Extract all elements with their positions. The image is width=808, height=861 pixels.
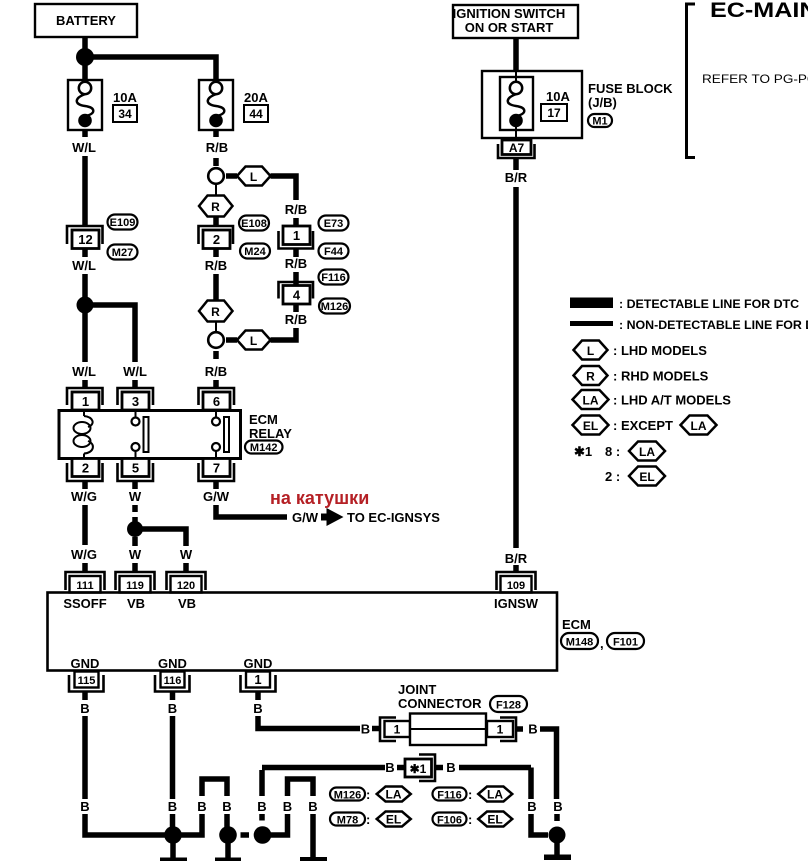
wire connector4 down to L2	[293, 304, 299, 312]
wire to connector 1	[293, 218, 299, 227]
svg-text:B: B	[80, 799, 89, 814]
wire W down	[132, 537, 138, 546]
svg-text::: :	[468, 812, 472, 827]
svg-text:GND: GND	[71, 656, 100, 671]
connector E109/M27 box 12	[67, 215, 138, 260]
fuse 10A 34	[68, 80, 137, 130]
node W junction	[127, 521, 143, 537]
svg-text:B: B	[80, 701, 89, 716]
ground 3	[300, 857, 327, 861]
node option circle 2	[208, 332, 224, 348]
wire battery down	[82, 37, 88, 80]
svg-text:1: 1	[497, 723, 504, 737]
svg-text:EL: EL	[386, 813, 401, 827]
svg-text:EC-MAIN: EC-MAIN	[710, 0, 808, 21]
svg-text:R/B: R/B	[285, 256, 307, 271]
relay contact 1	[132, 411, 149, 459]
node ground junction 2	[219, 826, 237, 844]
svg-text:F128: F128	[496, 700, 521, 712]
legend M78 EL	[330, 812, 411, 828]
svg-text:E73: E73	[324, 218, 344, 230]
wire bridge 1	[179, 814, 202, 835]
wire to pin111	[82, 563, 88, 573]
svg-text:R/B: R/B	[205, 258, 227, 273]
svg-text:W/L: W/L	[123, 364, 147, 379]
legend M126 LA	[330, 787, 411, 803]
RHD option hexagon R	[199, 301, 233, 322]
svg-text:4: 4	[293, 288, 301, 303]
svg-text:W: W	[180, 547, 193, 562]
svg-text:B: B	[553, 799, 562, 814]
connector *1	[405, 755, 435, 782]
svg-text:M126: M126	[321, 301, 349, 313]
svg-text:115: 115	[78, 675, 96, 687]
svg-text:,: ,	[600, 636, 604, 651]
svg-text:12: 12	[78, 232, 92, 247]
svg-text:G/W: G/W	[292, 510, 319, 525]
legend F116 LA	[433, 787, 513, 803]
svg-text:7: 7	[213, 461, 220, 476]
svg-text:A7: A7	[509, 141, 525, 155]
ECM box	[48, 593, 558, 671]
svg-text::: :	[366, 812, 370, 827]
wire pin7 to EC-IGNSYS	[216, 505, 287, 517]
svg-text:CONNECTOR: CONNECTOR	[398, 696, 482, 711]
wire W branch to pin120	[135, 529, 186, 546]
svg-text:120: 120	[177, 580, 195, 592]
svg-text:REFER TO PG-POWER.: REFER TO PG-POWER.	[702, 73, 808, 86]
wire pin2 down	[82, 505, 88, 545]
ECM pin 119	[116, 572, 155, 593]
wire circle to R	[215, 184, 217, 196]
svg-text:F116: F116	[321, 272, 345, 284]
svg-text:B: B	[446, 760, 455, 775]
svg-text:B: B	[257, 799, 266, 814]
svg-text:F44: F44	[324, 246, 344, 258]
svg-text:: EXCEPT: : EXCEPT	[613, 418, 673, 433]
svg-text:B: B	[168, 799, 177, 814]
svg-text:20A: 20A	[244, 90, 268, 105]
svg-text:ECM: ECM	[249, 412, 278, 427]
svg-text:W/L: W/L	[72, 140, 96, 155]
svg-text:E108: E108	[241, 218, 267, 230]
svg-text:: NON-DETECTABLE LINE FOR DTC: : NON-DETECTABLE LINE FOR DTC	[619, 318, 808, 332]
legend F106 EL	[433, 812, 513, 828]
svg-text:VB: VB	[127, 596, 145, 611]
relay pin 1	[67, 388, 103, 410]
wire ignition down	[513, 38, 519, 72]
wire circle2 down dashed	[213, 351, 219, 359]
node ground junction 1	[164, 826, 182, 844]
svg-text:B: B	[308, 799, 317, 814]
svg-text:M142: M142	[250, 442, 278, 454]
wire pin5 down dashed	[132, 505, 138, 512]
svg-text:M24: M24	[244, 246, 266, 258]
wire stub to L	[226, 173, 237, 179]
svg-text:VB: VB	[178, 596, 196, 611]
svg-text:(J/B): (J/B)	[588, 95, 617, 110]
svg-text:: LHD A/T MODELS: : LHD A/T MODELS	[613, 393, 731, 408]
svg-text:10A: 10A	[113, 90, 137, 105]
wire box2 down	[213, 249, 219, 258]
svg-text:LA: LA	[691, 419, 707, 433]
wire pin116 down	[170, 716, 176, 799]
svg-text:GND: GND	[244, 656, 273, 671]
wire R to circle	[215, 322, 217, 334]
wire A7 down	[513, 158, 519, 170]
svg-text:R: R	[211, 200, 220, 214]
fuse 20A 44	[199, 80, 268, 130]
wire stubs to pins 119 120	[132, 563, 138, 573]
svg-text:116: 116	[164, 675, 182, 687]
legend thin line	[570, 321, 613, 326]
wire to relay pin3	[132, 380, 138, 389]
relay pin 7	[199, 459, 235, 482]
legend hexagon R	[574, 366, 608, 385]
svg-text:B: B	[283, 799, 292, 814]
svg-text:W: W	[129, 547, 142, 562]
ECM pin 115	[69, 672, 104, 692]
title EC-MAIN	[710, 0, 808, 21]
svg-text:R: R	[586, 370, 595, 384]
wire bridge 2	[269, 814, 288, 835]
svg-text:2: 2	[82, 461, 89, 476]
svg-text:R/B: R/B	[205, 364, 227, 379]
svg-text:L: L	[250, 170, 257, 184]
ground 1	[170, 843, 176, 858]
svg-text:✱1: ✱1	[410, 762, 427, 776]
wire L to right branch	[271, 176, 297, 200]
svg-text:1: 1	[394, 723, 401, 737]
relay coil	[74, 411, 93, 459]
svg-text:LA: LA	[639, 445, 655, 459]
svg-text:W/L: W/L	[72, 364, 96, 379]
svg-text:на катушки: на катушки	[270, 488, 369, 508]
svg-text:6: 6	[213, 394, 220, 409]
svg-text:LA: LA	[583, 394, 599, 408]
relay pin 5	[118, 459, 154, 482]
pin stubs	[82, 692, 88, 701]
svg-text:EL: EL	[639, 470, 654, 484]
svg-text:3: 3	[132, 394, 139, 409]
ECM pin 111	[66, 572, 105, 593]
wire stub to L2	[226, 337, 237, 343]
fuse block labels	[588, 81, 673, 128]
arrow to EC-IGNSYS	[321, 508, 344, 526]
ground 4	[554, 843, 560, 855]
svg-text:F106: F106	[437, 815, 462, 827]
relay pin 2	[67, 459, 103, 482]
wire to relay pin1	[82, 380, 88, 389]
svg-text:B: B	[222, 799, 231, 814]
connector E73/F44 box 1	[279, 216, 349, 259]
svg-text:W/G: W/G	[71, 489, 97, 504]
svg-text:B: B	[528, 722, 537, 737]
svg-text:R/B: R/B	[285, 312, 307, 327]
wire box12 down	[82, 249, 88, 258]
node W/L junction	[77, 297, 94, 314]
svg-text::: :	[366, 787, 370, 802]
wire pin115 down	[82, 716, 88, 799]
battery box	[35, 4, 137, 37]
wire fuse20A down dashed	[213, 130, 219, 137]
svg-text:TO EC-IGNSYS: TO EC-IGNSYS	[347, 510, 440, 525]
svg-text:17: 17	[547, 106, 561, 120]
joint connector right wire	[516, 726, 523, 732]
refer note	[702, 73, 808, 86]
legend hexagon L	[574, 341, 608, 360]
wire pin115 corner to junction	[85, 814, 167, 835]
legend hexagon EL	[573, 416, 609, 435]
relay contact 2	[212, 411, 229, 459]
svg-text:ON OR START: ON OR START	[465, 20, 554, 35]
pin stubs below relay	[82, 481, 88, 489]
wire branch to relay pin3	[85, 305, 135, 362]
LHD option hexagon L	[237, 167, 271, 186]
svg-text:W: W	[129, 489, 142, 504]
svg-text:1: 1	[254, 672, 261, 687]
svg-text:10A: 10A	[546, 89, 570, 104]
svg-text:ECM: ECM	[562, 617, 591, 632]
svg-text:1: 1	[293, 228, 300, 243]
legend hexagon LA	[573, 390, 609, 409]
svg-text:B: B	[527, 799, 536, 814]
wire dash junction2 junction3	[241, 832, 250, 838]
ECM pin 116	[155, 672, 190, 692]
svg-text:IGNSW: IGNSW	[494, 596, 539, 611]
svg-text:1: 1	[82, 394, 89, 409]
joint connector F128	[380, 714, 516, 746]
svg-text:JOINT: JOINT	[398, 682, 436, 697]
svg-text:LA: LA	[487, 788, 503, 802]
svg-text:R: R	[211, 305, 220, 319]
wire R to connector 2	[213, 217, 219, 228]
wire to pin109	[513, 565, 519, 573]
bracket	[687, 4, 696, 158]
svg-text:109: 109	[507, 580, 525, 592]
svg-text:RELAY: RELAY	[249, 426, 292, 441]
svg-text:LA: LA	[386, 788, 402, 802]
svg-text:W/L: W/L	[72, 258, 96, 273]
svg-text:IGNITION SWITCH: IGNITION SWITCH	[453, 6, 566, 21]
svg-text:M126: M126	[334, 790, 362, 802]
svg-text:G/W: G/W	[203, 489, 230, 504]
wire fuse10A down	[82, 130, 88, 137]
ECM pin 120	[167, 572, 206, 593]
wire junction3 up to *1	[259, 814, 265, 821]
svg-text:B: B	[197, 799, 206, 814]
connector E108/M24 box 2	[199, 216, 271, 259]
ECM labels	[561, 617, 644, 651]
svg-text:: DETECTABLE LINE FOR DTC: : DETECTABLE LINE FOR DTC	[619, 297, 799, 311]
fuse block J/B box	[482, 71, 582, 140]
svg-text:: RHD MODELS: : RHD MODELS	[613, 369, 709, 384]
wire *1 row	[262, 765, 385, 771]
svg-text:✱1: ✱1	[574, 444, 592, 459]
relay pin 6	[199, 388, 235, 410]
relay labels ECM RELAY M142	[245, 412, 292, 454]
svg-text:2 :: 2 :	[605, 469, 620, 484]
ECM pin 109	[497, 572, 536, 593]
svg-text:8 :: 8 :	[605, 444, 620, 459]
svg-text:M1: M1	[592, 116, 607, 128]
svg-text:W/G: W/G	[71, 547, 97, 562]
svg-text:M78: M78	[337, 815, 358, 827]
svg-text:F116: F116	[437, 790, 461, 802]
svg-text:M148: M148	[566, 637, 594, 649]
svg-text:B: B	[385, 760, 394, 775]
svg-text:F101: F101	[613, 637, 638, 649]
wire pin GND1 to joint connector	[258, 716, 360, 729]
svg-text:B: B	[253, 701, 262, 716]
svg-text:EL: EL	[583, 419, 598, 433]
wire to relay pin6	[213, 380, 219, 389]
svg-text:B/R: B/R	[505, 170, 528, 185]
svg-text:: LHD MODELS: : LHD MODELS	[613, 343, 707, 358]
svg-text:B: B	[361, 722, 370, 737]
svg-text:R/B: R/B	[285, 202, 307, 217]
wire to connector 4	[293, 249, 299, 258]
connector F116/M126 box 4	[279, 270, 351, 314]
svg-text:FUSE BLOCK: FUSE BLOCK	[588, 81, 673, 96]
svg-text:E109: E109	[110, 217, 136, 229]
joint connector labels	[398, 682, 527, 712]
svg-text:44: 44	[249, 107, 263, 121]
svg-text:BATTERY: BATTERY	[56, 13, 116, 28]
relay pin 3	[118, 388, 154, 410]
ground 2	[225, 843, 231, 858]
ignition switch box	[453, 5, 578, 38]
svg-text:M27: M27	[112, 247, 133, 259]
svg-text:SSOFF: SSOFF	[63, 596, 106, 611]
svg-text:B/R: B/R	[505, 551, 528, 566]
node battery junction	[76, 48, 94, 66]
LHD option hexagon L2	[237, 331, 271, 350]
legend thick line	[570, 298, 613, 309]
connector A7	[498, 140, 535, 158]
svg-text:L: L	[250, 334, 257, 348]
svg-text:R/B: R/B	[206, 140, 228, 155]
svg-text:119: 119	[126, 580, 144, 592]
svg-text:5: 5	[132, 461, 139, 476]
svg-text:EL: EL	[487, 813, 502, 827]
wire junction to fuse 20A	[85, 57, 216, 80]
svg-text::: :	[468, 787, 472, 802]
svg-text:B: B	[168, 701, 177, 716]
ECM pin GND 1	[241, 672, 276, 692]
svg-text:34: 34	[118, 107, 132, 121]
svg-text:GND: GND	[158, 656, 187, 671]
wire bridge2 to ground 3	[310, 814, 316, 858]
node option circle	[208, 168, 224, 184]
wire *1 right to junction4	[459, 765, 531, 771]
node ground junction 4	[549, 827, 566, 844]
svg-text:L: L	[587, 344, 594, 358]
ECM relay box	[59, 411, 241, 459]
svg-text:2: 2	[213, 232, 220, 247]
svg-text:111: 111	[76, 580, 93, 592]
node ground junction 3	[254, 826, 272, 844]
RHD option hexagon R	[199, 196, 233, 217]
